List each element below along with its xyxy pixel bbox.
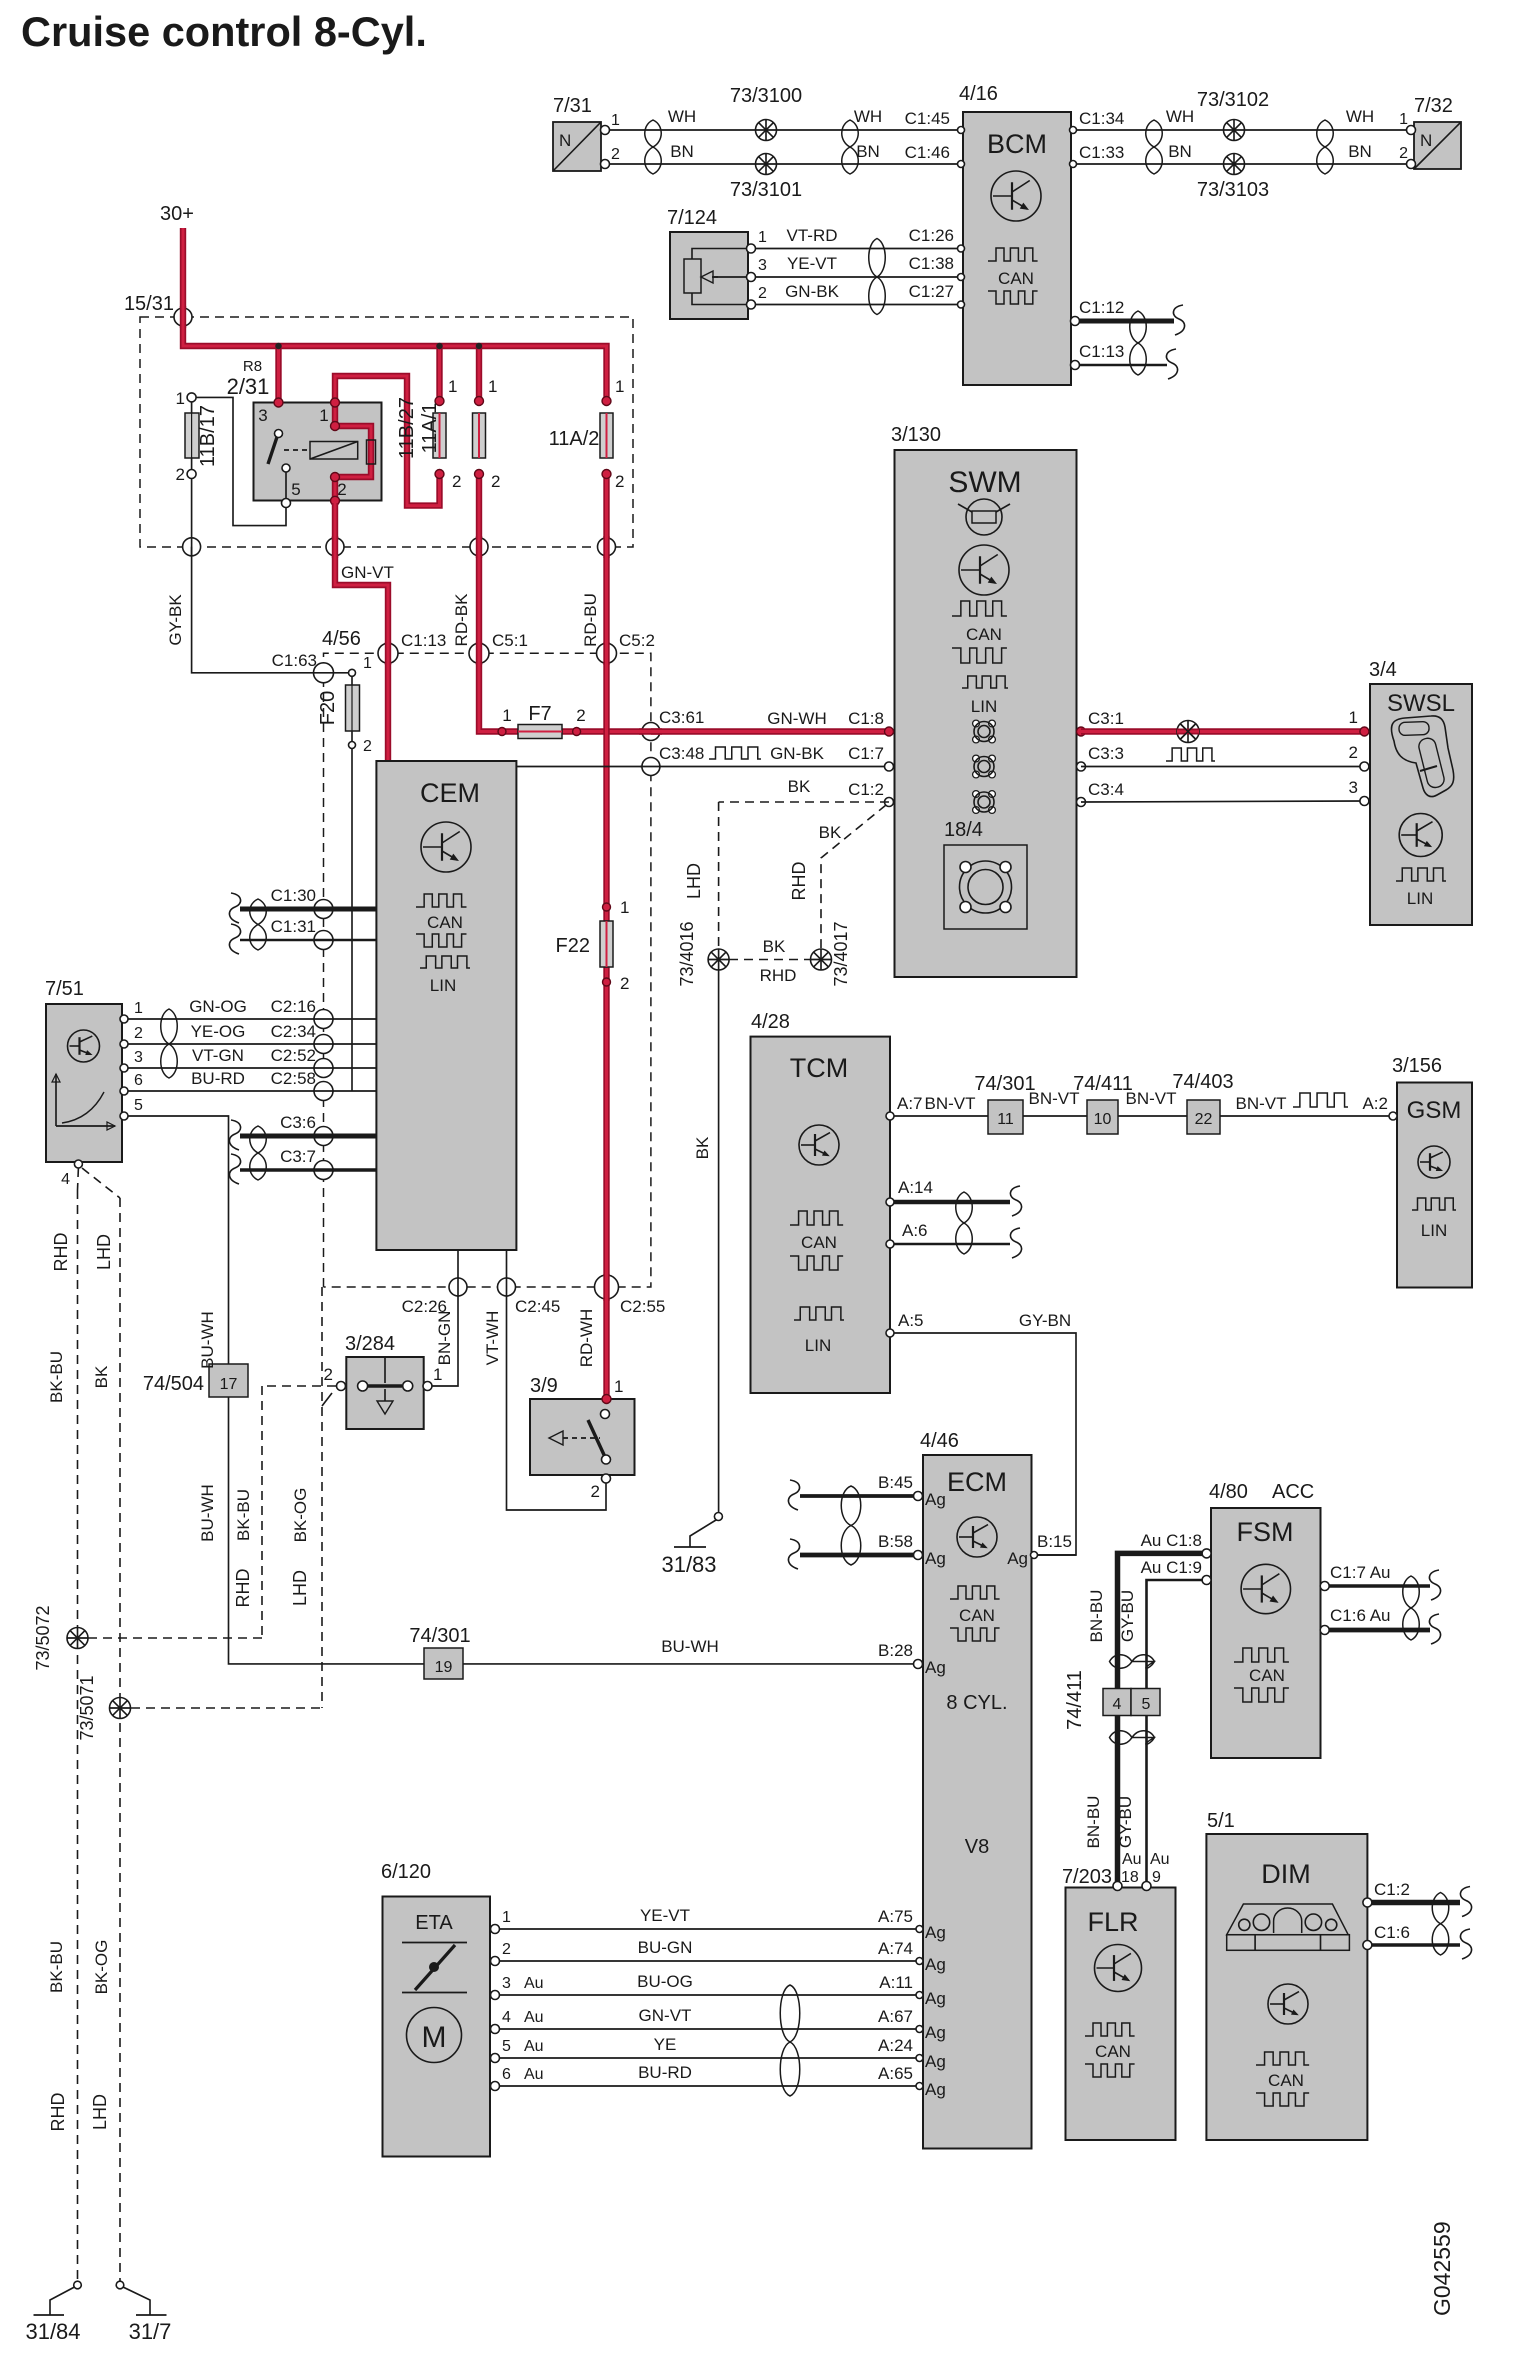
svg-text:B:45: B:45	[878, 1473, 913, 1492]
svg-text:CEM: CEM	[420, 778, 480, 808]
svg-text:1: 1	[615, 377, 624, 396]
wire C3:6	[229, 1120, 376, 1150]
svg-text:BN-VT: BN-VT	[1236, 1094, 1287, 1113]
svg-text:A:5: A:5	[898, 1311, 924, 1330]
svg-text:1: 1	[176, 389, 185, 408]
svg-text:6/120: 6/120	[381, 1861, 431, 1883]
wire BK dashed LHD	[719, 802, 889, 949]
svg-text:GY-BU: GY-BU	[1116, 1796, 1135, 1848]
svg-text:Au C1:8: Au C1:8	[1141, 1531, 1202, 1550]
wire SWM C3:1 to SWSL red	[1081, 728, 1364, 734]
ground 31/84	[25, 2281, 81, 2344]
splice 73/4017	[811, 921, 852, 986]
wire TCM A:5 GY-BN	[886, 1311, 1076, 1555]
svg-text:C2:58: C2:58	[271, 1069, 316, 1088]
module 7/51	[45, 978, 143, 1188]
label BK rail1	[92, 1365, 111, 1388]
svg-text:GN-OG: GN-OG	[189, 997, 247, 1016]
svg-text:1: 1	[1399, 111, 1408, 128]
label C1:26	[909, 226, 954, 245]
svg-text:Ag: Ag	[925, 1989, 946, 2008]
relay R8 2/31	[227, 358, 382, 501]
svg-text:7/31: 7/31	[553, 95, 592, 117]
svg-text:18: 18	[1121, 1869, 1139, 1886]
label LHD rail2	[90, 2094, 110, 2130]
label BN-GN	[435, 1311, 454, 1366]
twisted pair WH/BN mid	[842, 120, 859, 174]
switch 3/9	[530, 1375, 635, 1501]
svg-text:LIN: LIN	[430, 976, 456, 995]
label BK-BU rail2	[47, 1941, 66, 1993]
svg-text:BU-WH: BU-WH	[198, 1484, 217, 1542]
svg-text:2: 2	[620, 974, 629, 993]
wire 11A/2 down RD-BU	[603, 474, 609, 1399]
svg-text:6: 6	[134, 1072, 143, 1089]
svg-text:C1:30: C1:30	[271, 886, 316, 905]
svg-text:73/3101: 73/3101	[730, 179, 802, 201]
break slash	[322, 1393, 332, 1406]
svg-text:BK-BU: BK-BU	[47, 1351, 66, 1403]
svg-text:2: 2	[576, 706, 585, 725]
twisted pair WH/BN left	[645, 120, 662, 174]
svg-text:Ag: Ag	[925, 1955, 946, 1974]
wire BN-VT chain	[890, 1115, 1393, 1117]
stalk switch SWSL 3/4	[1349, 659, 1472, 925]
splice 73/3100	[730, 85, 802, 141]
node C3:61	[642, 708, 704, 741]
svg-text:C1:8: C1:8	[848, 709, 884, 728]
svg-text:3/4: 3/4	[1369, 659, 1397, 681]
svg-text:GY-BK: GY-BK	[166, 594, 185, 646]
label BU-WH rot upper	[198, 1311, 217, 1369]
svg-text:A:75: A:75	[878, 1907, 913, 1926]
fuse F22	[556, 898, 630, 993]
svg-text:A:74: A:74	[878, 1939, 913, 1958]
svg-text:31/84: 31/84	[25, 2319, 80, 2344]
svg-text:WH: WH	[668, 107, 696, 126]
dashed bottom edge nodes	[449, 1275, 619, 1299]
label BK mid	[763, 937, 786, 956]
ECU BCM 4/16	[958, 83, 1077, 385]
svg-text:Ag: Ag	[925, 2052, 946, 2071]
wire red bus	[183, 317, 607, 401]
svg-text:C1:31: C1:31	[271, 917, 316, 936]
twisted pair B:45/58	[841, 1486, 861, 1565]
label LHD rail1	[94, 1234, 114, 1270]
label C3:6	[280, 1113, 316, 1132]
twist pair vertical 1	[1110, 1655, 1155, 1669]
svg-text:LIN: LIN	[1421, 1221, 1447, 1240]
label BN 2	[856, 142, 880, 161]
node C5:1	[469, 631, 528, 663]
wire VT-GN	[124, 1067, 376, 1069]
ECU DIM 5/1	[1206, 1810, 1367, 2140]
junction dots on bus	[275, 343, 482, 349]
svg-text:5: 5	[291, 480, 300, 499]
label C3:7	[280, 1147, 316, 1166]
svg-text:3: 3	[758, 257, 767, 274]
svg-text:RHD: RHD	[789, 862, 809, 901]
wire YE-VT 7/124 to BCM	[751, 276, 963, 278]
dashed rail LHD BK	[119, 1198, 121, 2281]
svg-text:LHD: LHD	[290, 1570, 310, 1606]
wire GN-VT inside dashed to CEM top	[0, 0, 1, 1]
svg-text:Au: Au	[524, 1975, 544, 1992]
connector 74/301 pin11	[974, 1073, 1035, 1134]
svg-text:1: 1	[614, 1377, 623, 1396]
svg-text:7/124: 7/124	[667, 207, 717, 229]
svg-text:C1:26: C1:26	[909, 226, 954, 245]
svg-text:C2:52: C2:52	[271, 1046, 316, 1065]
svg-text:C5:1: C5:1	[492, 631, 528, 650]
svg-text:11: 11	[997, 1111, 1014, 1128]
svg-text:Au: Au	[524, 2066, 544, 2083]
svg-text:6: 6	[502, 2066, 511, 2083]
label C1:7 Au	[1330, 1563, 1391, 1582]
svg-text:C1:6: C1:6	[1374, 1923, 1410, 1942]
pins B:45 B:58	[914, 1492, 923, 1560]
twisted pair C1:30/31	[250, 899, 267, 950]
svg-text:Ag: Ag	[925, 1490, 946, 1509]
svg-text:2: 2	[1399, 145, 1408, 162]
wire VT-WH C2:45	[507, 1250, 607, 1510]
svg-text:GY-BU: GY-BU	[1118, 1590, 1137, 1642]
svg-text:3/130: 3/130	[891, 424, 941, 446]
svg-text:LIN: LIN	[1407, 889, 1433, 908]
svg-text:WH: WH	[1166, 107, 1194, 126]
label B:58	[878, 1532, 913, 1551]
label C2:55	[620, 1297, 665, 1316]
label BN-VT 4	[1236, 1094, 1287, 1113]
svg-text:Au: Au	[1122, 1851, 1142, 1868]
svg-text:4/46: 4/46	[920, 1430, 959, 1452]
wire BK down to ground 31/83	[718, 970, 720, 1512]
signal wave BN-VT	[1293, 1093, 1348, 1107]
svg-text:BK-BU: BK-BU	[234, 1489, 253, 1541]
svg-text:1: 1	[502, 706, 511, 725]
label WH 4	[1346, 107, 1374, 126]
svg-text:3: 3	[258, 406, 267, 425]
wire 7/51 pin5 BU-WH	[124, 1116, 229, 1364]
svg-text:A:2: A:2	[1362, 1094, 1388, 1113]
connector 74/301 pin19	[409, 1625, 470, 1679]
svg-text:C3:3: C3:3	[1088, 744, 1124, 763]
dashed fuse box 15/31	[140, 317, 633, 547]
label B:45	[878, 1473, 913, 1492]
svg-text:BN-VT: BN-VT	[1126, 1089, 1177, 1108]
svg-text:4/56: 4/56	[322, 628, 361, 650]
dashed rail RHD BK-BU	[77, 1190, 79, 2281]
twisted pair 7/51 wires	[161, 1009, 178, 1078]
svg-text:BK: BK	[92, 1365, 111, 1388]
svg-text:C1:63: C1:63	[272, 651, 317, 670]
svg-text:74/301: 74/301	[409, 1625, 470, 1647]
svg-text:VT-WH: VT-WH	[483, 1311, 502, 1366]
labels 7/51 wires	[189, 997, 247, 1088]
connector 74/504 pin17	[143, 1364, 248, 1397]
wire FSM C1:7	[1320, 1570, 1440, 1600]
wire WH 7/31 to BCM	[605, 129, 963, 131]
svg-text:5/1: 5/1	[1207, 1810, 1235, 1832]
svg-text:73/5072: 73/5072	[33, 1605, 53, 1670]
fuse 11B/27	[396, 377, 461, 491]
twisted pair FSM right	[1403, 1576, 1420, 1640]
labels SWM right pins	[1088, 709, 1124, 799]
svg-text:74/504: 74/504	[143, 1373, 204, 1395]
pin B:28	[914, 1660, 923, 1669]
label GY-BU rot 2	[1116, 1796, 1135, 1848]
wire BN 7/31 to BCM	[605, 163, 963, 165]
svg-text:WH: WH	[1346, 107, 1374, 126]
svg-text:C1:2: C1:2	[1374, 1880, 1410, 1899]
label B:15	[1007, 1532, 1072, 1568]
label C1:34	[1079, 109, 1124, 128]
svg-text:F7: F7	[528, 703, 551, 725]
svg-text:18/4: 18/4	[944, 819, 983, 841]
svg-text:C1:2: C1:2	[848, 780, 884, 799]
svg-text:73/4017: 73/4017	[831, 921, 851, 986]
svg-text:2: 2	[615, 472, 624, 491]
svg-text:73/3102: 73/3102	[1197, 89, 1269, 111]
svg-text:A:65: A:65	[878, 2064, 913, 2083]
svg-text:GN-VT: GN-VT	[639, 2006, 692, 2025]
wire relay coil loop	[335, 401, 371, 501]
svg-text:11B/27: 11B/27	[396, 397, 418, 459]
wire TCM A:14	[886, 1178, 1022, 1216]
svg-text:1: 1	[1349, 708, 1358, 727]
svg-text:C1:46: C1:46	[905, 143, 950, 162]
svg-text:15/31: 15/31	[124, 293, 174, 315]
pin C1:12	[1071, 317, 1080, 326]
throttle actuator ETA 6/120	[381, 1861, 490, 2157]
label pin2 7/32	[1399, 145, 1408, 162]
label C2:26	[402, 1297, 447, 1316]
svg-text:YE-OG: YE-OG	[191, 1022, 246, 1041]
label BK-BU branch	[234, 1489, 253, 1541]
labels Au 18 9	[1121, 1851, 1170, 1886]
svg-text:ETA: ETA	[415, 1912, 453, 1934]
wire C1:31 CAN	[229, 924, 376, 954]
svg-text:N: N	[1420, 131, 1432, 150]
wire relay pin5 to 11B/17 pin1	[196, 397, 291, 525]
svg-text:8 CYL.: 8 CYL.	[946, 1692, 1007, 1714]
label C1:33	[1079, 143, 1124, 162]
label GN-WH	[767, 709, 826, 728]
svg-text:73/4016: 73/4016	[677, 921, 697, 986]
label BK diag	[819, 823, 842, 842]
svg-text:Au: Au	[524, 2038, 544, 2055]
svg-text:CAN: CAN	[1268, 2071, 1304, 2090]
wire GN-OG	[124, 1018, 376, 1020]
twisted pair ETA wires	[780, 1985, 800, 2096]
ECU SWM 3/130	[891, 424, 1077, 977]
svg-text:Au: Au	[524, 2009, 544, 2026]
svg-text:30+: 30+	[160, 203, 194, 225]
svg-text:1: 1	[611, 112, 620, 129]
svg-text:Ag: Ag	[925, 1658, 946, 1677]
wire C2:26 down done	[0, 0, 1, 1]
pins SWM left	[885, 727, 894, 807]
label BK row3	[788, 777, 811, 796]
svg-text:3: 3	[502, 1975, 511, 1992]
svg-text:A:7: A:7	[897, 1094, 923, 1113]
svg-text:2: 2	[611, 146, 620, 163]
ECU ECM 4/46	[920, 1430, 1032, 2149]
twisted pair C1:12/13	[1130, 311, 1147, 375]
label WH	[668, 107, 696, 126]
label YE-VT	[787, 254, 837, 273]
svg-text:11B/17: 11B/17	[197, 405, 219, 467]
signal wave row2	[1166, 748, 1215, 761]
sensor 7/31	[553, 95, 620, 171]
svg-text:LHD: LHD	[94, 1234, 114, 1270]
svg-text:GN-VT: GN-VT	[341, 563, 394, 582]
ECU TCM 4/28	[751, 1011, 891, 1393]
svg-text:1: 1	[448, 377, 457, 396]
svg-text:RHD: RHD	[233, 1569, 253, 1608]
label VT-WH	[483, 1311, 502, 1366]
svg-text:RHD: RHD	[760, 966, 797, 985]
wire GY-BU FSM to FLR	[1147, 1580, 1207, 1884]
twisted pair A:14/A:6	[956, 1192, 973, 1254]
relay coil bar	[367, 440, 376, 464]
svg-text:C2:16: C2:16	[271, 997, 316, 1016]
svg-text:CAN: CAN	[966, 625, 1002, 644]
dashed wire 3/284 pin2	[262, 1385, 336, 1387]
svg-text:CAN: CAN	[801, 1233, 837, 1252]
wire BN-GN C2:26	[432, 1250, 458, 1386]
svg-text:5: 5	[134, 1097, 143, 1114]
label BN 3	[1168, 142, 1192, 161]
svg-text:BK-BU: BK-BU	[47, 1941, 66, 1993]
svg-text:CAN: CAN	[959, 1606, 995, 1625]
dashed 73/5072 to BK-BU branch	[88, 1386, 262, 1638]
svg-text:C1:13: C1:13	[401, 631, 446, 650]
wire YE-OG	[124, 1043, 376, 1045]
label GY-BK	[166, 594, 185, 646]
label WH 3	[1166, 107, 1194, 126]
wire GY-BK to C1:63	[192, 547, 352, 673]
label RD-BK	[452, 593, 471, 647]
label LHD branch	[290, 1570, 310, 1606]
svg-text:2: 2	[363, 738, 372, 755]
svg-text:74/403: 74/403	[1172, 1071, 1233, 1093]
pins FSM left	[1202, 1549, 1211, 1585]
ECU FLR 7/203	[1062, 1866, 1176, 2140]
svg-text:BCM: BCM	[987, 129, 1047, 159]
wire drop to relay pin3	[275, 346, 281, 401]
wire 30+ feed	[180, 228, 186, 317]
title Cruise control 8-Cyl.	[21, 8, 427, 55]
node C1:13	[378, 631, 446, 663]
svg-text:C2:55: C2:55	[620, 1297, 665, 1316]
label B:28	[878, 1641, 913, 1660]
node C5:2	[597, 631, 655, 663]
sensor 7/124	[667, 207, 767, 319]
svg-text:11A/2: 11A/2	[549, 428, 600, 450]
svg-text:C1:6 Au: C1:6 Au	[1330, 1606, 1391, 1625]
svg-text:BU-WH: BU-WH	[198, 1311, 217, 1369]
connector 74/411 pins 4 5	[1064, 1670, 1160, 1730]
svg-text:C3:6: C3:6	[280, 1113, 316, 1132]
svg-text:CAN: CAN	[998, 269, 1034, 288]
switch 3/284	[324, 1333, 443, 1429]
svg-text:LHD: LHD	[90, 2094, 110, 2130]
twist pair vertical 2	[1110, 1731, 1155, 1745]
svg-text:SWSL: SWSL	[1387, 690, 1455, 717]
black wires over junction circles	[192, 537, 661, 1297]
svg-text:BU-OG: BU-OG	[637, 1972, 693, 1991]
wire drop to 11A/1	[476, 346, 482, 401]
horn pad 18/4	[944, 819, 1027, 929]
svg-text:BN: BN	[1168, 142, 1192, 161]
svg-text:A:67: A:67	[878, 2007, 913, 2026]
svg-text:SWM: SWM	[948, 466, 1021, 499]
wire SWM C3:3 to SWSL	[1081, 766, 1364, 768]
svg-text:4: 4	[61, 1171, 70, 1188]
svg-text:3: 3	[134, 1049, 143, 1066]
svg-text:7/51: 7/51	[45, 978, 84, 1000]
label Au C1:9	[1141, 1558, 1202, 1577]
svg-text:C1:33: C1:33	[1079, 143, 1124, 162]
svg-text:VT-RD: VT-RD	[787, 226, 838, 245]
wire B:15	[1031, 1552, 1077, 1559]
label pin1 7/32	[1399, 111, 1408, 128]
svg-text:YE: YE	[654, 2035, 677, 2054]
svg-text:73/5071: 73/5071	[77, 1675, 97, 1740]
label GN-BK	[770, 744, 825, 763]
label LHD rot	[684, 863, 704, 899]
svg-text:5: 5	[502, 2038, 511, 2055]
svg-text:ACC: ACC	[1272, 1481, 1314, 1503]
svg-text:B:28: B:28	[878, 1641, 913, 1660]
ground 31/83	[661, 1513, 722, 1578]
wire TCM A:6	[886, 1221, 1022, 1258]
svg-text:7/32: 7/32	[1414, 95, 1453, 117]
label BU-WH rot	[198, 1484, 217, 1542]
label BK top	[0, 0, 1, 1]
svg-text:C2:34: C2:34	[271, 1022, 316, 1041]
twisted pair WH/BN right2	[1317, 120, 1334, 174]
svg-text:B:58: B:58	[878, 1532, 913, 1551]
label C1:2	[1374, 1880, 1410, 1899]
wire C3:48 CEM to SWM	[516, 766, 889, 768]
svg-text:22: 22	[1195, 1111, 1213, 1128]
label WH 2	[854, 107, 882, 126]
label C1:45	[905, 109, 950, 128]
label BN-VT 3	[1126, 1089, 1177, 1108]
svg-text:RD-BU: RD-BU	[581, 593, 600, 647]
label C1:38	[909, 254, 954, 273]
label RHD branch	[233, 1569, 253, 1608]
svg-text:Ag: Ag	[925, 1923, 946, 1942]
svg-text:G042559: G042559	[1429, 2221, 1455, 2316]
svg-text:RD-BK: RD-BK	[452, 593, 471, 647]
svg-text:4/28: 4/28	[751, 1011, 790, 1033]
svg-text:FLR: FLR	[1087, 1907, 1138, 1937]
svg-text:BN: BN	[856, 142, 880, 161]
fuse F20	[317, 655, 372, 1091]
svg-text:M: M	[422, 2021, 447, 2054]
svg-text:BN-VT: BN-VT	[925, 1094, 976, 1113]
label BN-VT 2	[1029, 1089, 1080, 1108]
svg-text:2: 2	[491, 472, 500, 491]
svg-text:C5:2: C5:2	[619, 631, 655, 650]
label BN-BU rot 2	[1084, 1796, 1103, 1849]
svg-text:VT-GN: VT-GN	[192, 1046, 244, 1065]
svg-text:C3:7: C3:7	[280, 1147, 316, 1166]
svg-text:Ag: Ag	[925, 2023, 946, 2042]
